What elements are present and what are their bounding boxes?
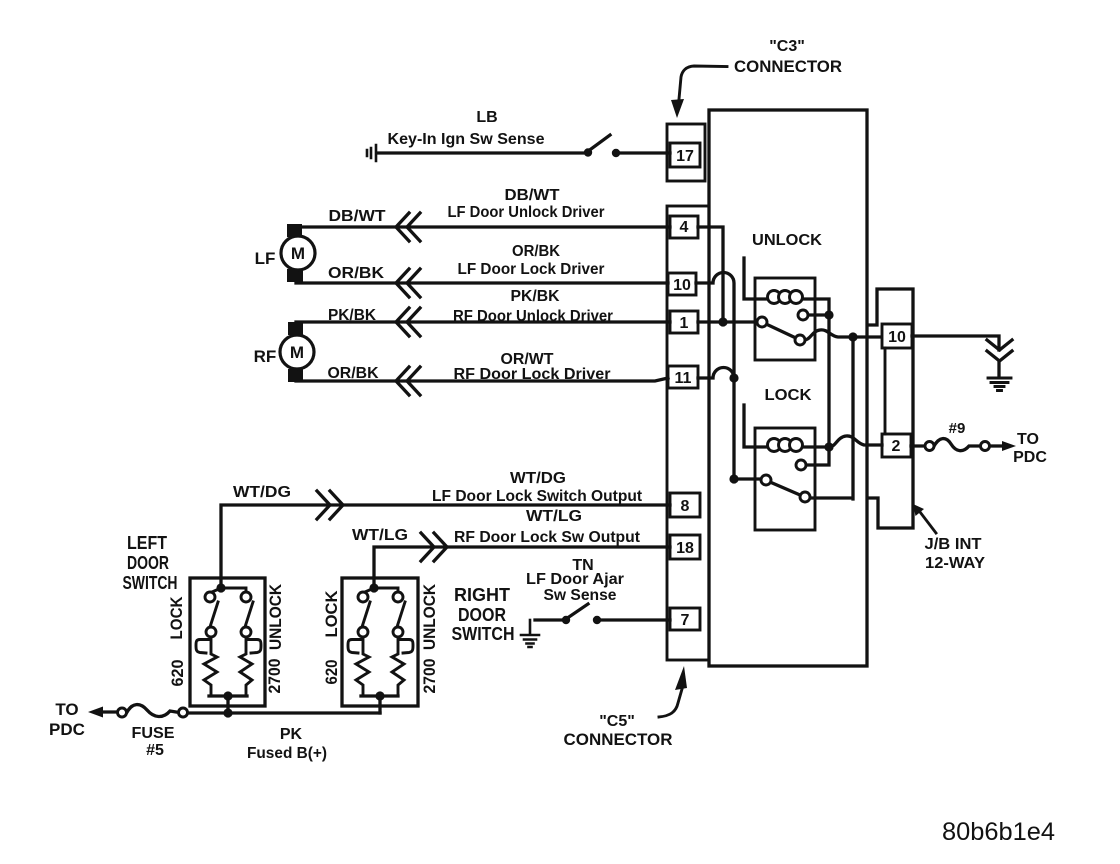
svg-text:FUSE: FUSE bbox=[132, 725, 175, 742]
svg-text:7: 7 bbox=[681, 612, 690, 629]
svg-text:LF Door Unlock Driver: LF Door Unlock Driver bbox=[448, 204, 605, 221]
svg-text:M: M bbox=[290, 343, 304, 362]
svg-text:1: 1 bbox=[680, 315, 689, 332]
svg-text:DOOR: DOOR bbox=[458, 605, 506, 625]
svg-text:18: 18 bbox=[676, 540, 694, 557]
svg-text:10: 10 bbox=[673, 277, 691, 294]
svg-text:PDC: PDC bbox=[49, 720, 85, 739]
svg-text:80b6b1e4: 80b6b1e4 bbox=[942, 818, 1055, 846]
svg-text:TO: TO bbox=[55, 700, 78, 719]
svg-text:620: 620 bbox=[168, 660, 187, 687]
svg-text:SWITCH: SWITCH bbox=[452, 624, 515, 644]
svg-text:DB/WT: DB/WT bbox=[329, 208, 386, 225]
svg-text:LF: LF bbox=[255, 249, 276, 268]
svg-text:OR/BK: OR/BK bbox=[512, 243, 560, 260]
svg-text:CONNECTOR: CONNECTOR bbox=[564, 730, 673, 749]
svg-text:#9: #9 bbox=[949, 420, 966, 437]
svg-text:DB/WT: DB/WT bbox=[505, 187, 560, 204]
svg-text:PK: PK bbox=[280, 726, 303, 743]
svg-text:PDC: PDC bbox=[1013, 449, 1047, 466]
svg-text:RIGHT: RIGHT bbox=[454, 585, 510, 605]
svg-text:LOCK: LOCK bbox=[765, 387, 812, 404]
svg-text:WT/DG: WT/DG bbox=[233, 484, 291, 501]
svg-text:2700: 2700 bbox=[265, 659, 284, 694]
svg-text:CONNECTOR: CONNECTOR bbox=[734, 57, 842, 76]
svg-text:UNLOCK: UNLOCK bbox=[752, 232, 822, 249]
svg-text:17: 17 bbox=[676, 148, 694, 165]
svg-text:UNLOCK: UNLOCK bbox=[266, 583, 285, 650]
svg-text:"C5": "C5" bbox=[599, 713, 635, 730]
svg-text:RF Door Lock Driver: RF Door Lock Driver bbox=[454, 366, 611, 383]
svg-text:SWITCH: SWITCH bbox=[123, 573, 178, 593]
svg-text:WT/DG: WT/DG bbox=[510, 470, 566, 487]
svg-text:"C3": "C3" bbox=[769, 38, 805, 55]
svg-text:LB: LB bbox=[476, 109, 497, 126]
svg-text:Sw Sense: Sw Sense bbox=[544, 587, 617, 604]
svg-text:WT/LG: WT/LG bbox=[352, 527, 408, 544]
svg-text:2: 2 bbox=[892, 438, 901, 455]
svg-text:DOOR: DOOR bbox=[127, 553, 169, 573]
svg-text:OR/BK: OR/BK bbox=[328, 365, 379, 382]
svg-text:M: M bbox=[291, 244, 305, 263]
svg-text:WT/LG: WT/LG bbox=[526, 508, 582, 525]
svg-text:LEFT: LEFT bbox=[127, 533, 167, 553]
svg-text:PK/BK: PK/BK bbox=[328, 307, 376, 324]
svg-text:#5: #5 bbox=[146, 742, 164, 759]
svg-text:RF: RF bbox=[254, 347, 277, 366]
svg-text:LF Door Ajar: LF Door Ajar bbox=[526, 571, 624, 588]
svg-text:Fused B(+): Fused B(+) bbox=[247, 745, 327, 762]
svg-text:TO: TO bbox=[1017, 431, 1039, 448]
svg-text:RF Door Lock Sw Output: RF Door Lock Sw Output bbox=[454, 529, 641, 546]
svg-text:PK/BK: PK/BK bbox=[511, 288, 560, 305]
svg-text:10: 10 bbox=[888, 329, 906, 346]
svg-text:620: 620 bbox=[322, 660, 341, 685]
svg-text:11: 11 bbox=[675, 370, 692, 387]
svg-text:J/B INT: J/B INT bbox=[925, 536, 982, 553]
svg-text:RF Door Unlock Driver: RF Door Unlock Driver bbox=[453, 308, 613, 325]
svg-text:Key-In Ign Sw Sense: Key-In Ign Sw Sense bbox=[388, 131, 545, 148]
svg-text:LF Door Lock Driver: LF Door Lock Driver bbox=[458, 261, 605, 278]
svg-text:LOCK: LOCK bbox=[322, 590, 341, 638]
svg-text:UNLOCK: UNLOCK bbox=[420, 583, 439, 650]
svg-text:OR/BK: OR/BK bbox=[328, 265, 384, 282]
svg-text:LF Door Lock Switch Output: LF Door Lock Switch Output bbox=[432, 488, 643, 505]
svg-text:12-WAY: 12-WAY bbox=[925, 555, 985, 572]
svg-text:8: 8 bbox=[681, 498, 690, 515]
svg-text:2700: 2700 bbox=[420, 659, 439, 694]
svg-text:LOCK: LOCK bbox=[167, 596, 186, 640]
svg-text:4: 4 bbox=[680, 219, 689, 236]
